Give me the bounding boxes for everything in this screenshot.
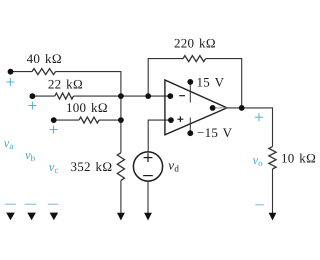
svg-text:22 kΩ: 22 kΩ — [48, 76, 83, 91]
wire vd to ground — [147, 181, 149, 214]
op-amp output lead — [213, 107, 227, 109]
wire feedback right leg — [206, 59, 242, 108]
node -15V pin — [187, 130, 193, 136]
svg-text:100 kΩ: 100 kΩ — [66, 100, 108, 115]
ground — [6, 213, 276, 221]
ground vc — [50, 213, 59, 221]
wire output row — [227, 108, 273, 147]
minus va — [5, 203, 16, 205]
ground vd — [144, 213, 152, 221]
plus vb — [28, 105, 36, 107]
junction feedback — [145, 93, 151, 99]
node noninverting input — [168, 117, 174, 123]
wire vertical to 352k — [120, 96, 122, 153]
minus vb — [25, 203, 37, 205]
svg-text:40 kΩ: 40 kΩ — [27, 51, 62, 66]
resistor 352 kOhm — [117, 153, 124, 181]
node output pin — [210, 105, 216, 111]
junction 40k-22k — [118, 93, 124, 99]
node dots — [8, 69, 245, 136]
op-amp — [165, 80, 227, 135]
svg-text:15 V: 15 V — [197, 74, 225, 89]
ground va — [6, 213, 15, 221]
source vd — [133, 152, 162, 181]
wire row2 vb to resistor — [32, 95, 54, 97]
junction output-feedback — [239, 105, 245, 111]
junction 100k-352k — [118, 117, 124, 123]
svg-text:10 kΩ: 10 kΩ — [281, 150, 316, 165]
node +15V pin — [187, 79, 193, 85]
plus vc — [50, 129, 58, 131]
resistor 40 kOhm — [32, 69, 56, 75]
wire feedback left leg — [148, 59, 183, 97]
resistor 100 kOhm — [79, 117, 99, 123]
wire 10k to ground — [272, 169, 274, 214]
node vb terminal — [30, 93, 36, 99]
minus vo — [255, 204, 264, 206]
minus vc — [48, 203, 58, 205]
wire row3 vc to resistor — [54, 119, 79, 121]
op-amp -15V stub — [189, 118, 191, 134]
ground 10k — [269, 213, 277, 221]
wire row1 resistor to corner — [56, 72, 121, 97]
plus va — [6, 81, 14, 83]
wire 352k to ground — [120, 180, 122, 214]
op-amp plus sign — [178, 118, 184, 120]
ground vb — [27, 213, 36, 221]
ground 352k — [117, 213, 125, 221]
resistor 22 kOhm — [55, 93, 74, 99]
wire noninverting input to vd — [148, 120, 171, 152]
node vc terminal — [51, 117, 57, 123]
node inverting input — [167, 93, 173, 99]
op-amp minus sign — [179, 95, 185, 97]
svg-text:352 kΩ: 352 kΩ — [70, 159, 112, 174]
svg-text:220 kΩ: 220 kΩ — [174, 35, 216, 50]
node va terminal — [8, 69, 14, 75]
polarity marks teal — [5, 78, 264, 205]
svg-text:−15 V: −15 V — [197, 125, 233, 140]
wire row3 resistor to junction — [99, 119, 121, 121]
wire row2 resistor to inverting input — [74, 95, 171, 97]
resistor 220 kOhm — [183, 56, 206, 62]
op-amp +15V stub — [189, 82, 191, 103]
wire row1 va to resistor — [11, 71, 33, 73]
resistor 10 kOhm — [269, 147, 276, 169]
plus vo — [255, 116, 263, 118]
